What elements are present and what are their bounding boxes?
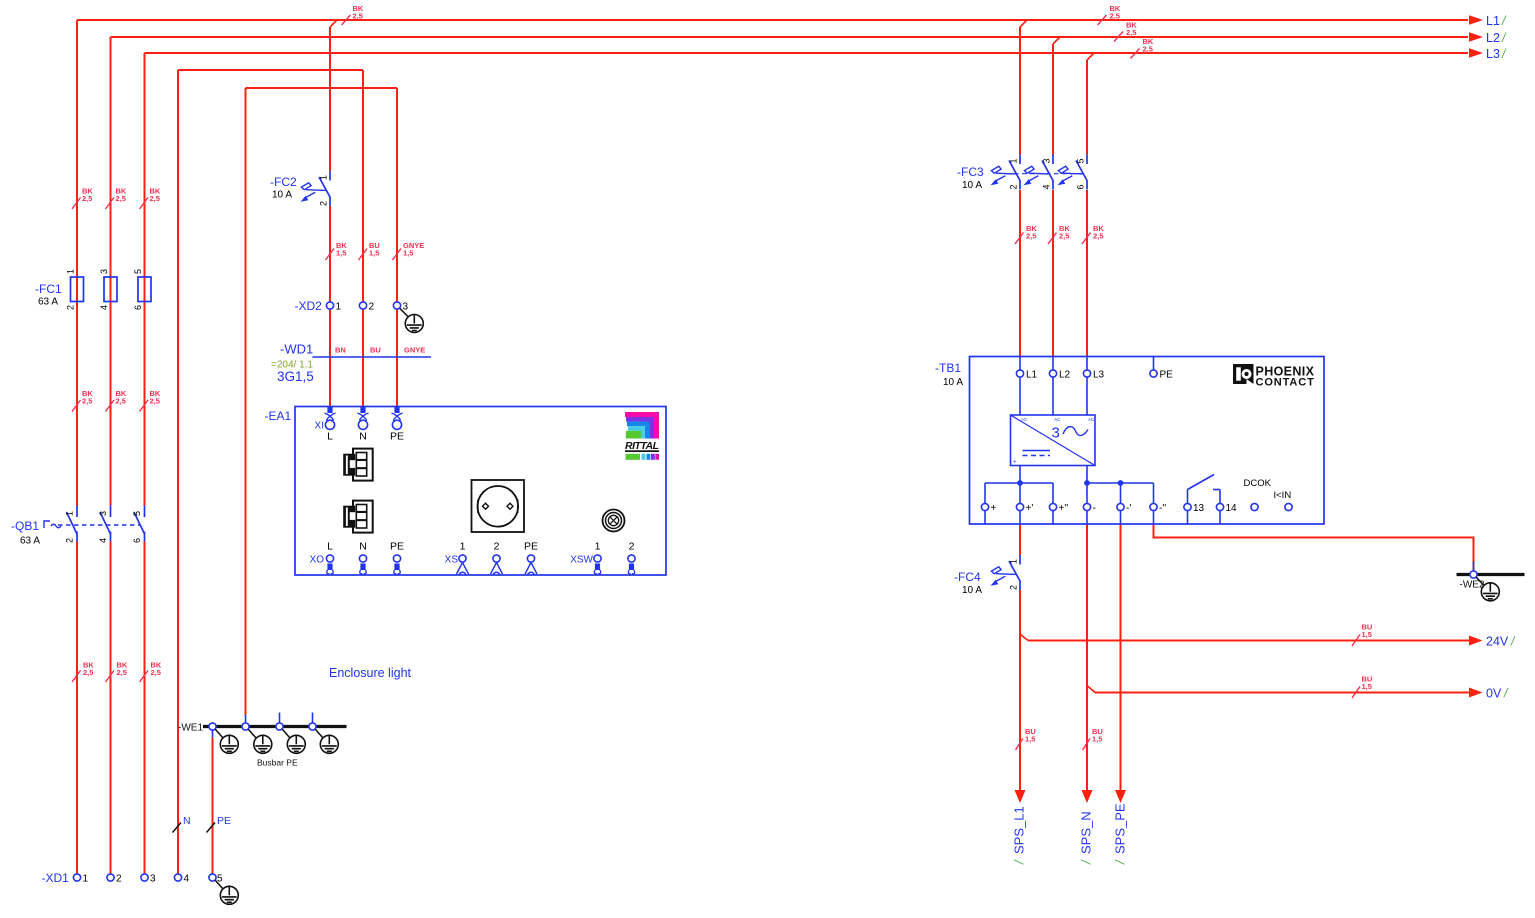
svg-text:6: 6 bbox=[132, 538, 142, 543]
svg-text:1,5: 1,5 bbox=[1092, 735, 1102, 744]
svg-text:RITTAL: RITTAL bbox=[625, 440, 659, 452]
svg-text:PE: PE bbox=[524, 541, 538, 553]
svg-text:2,5: 2,5 bbox=[117, 668, 127, 677]
svg-text:AC: AC bbox=[1088, 417, 1095, 422]
svg-text:-XD1: -XD1 bbox=[42, 871, 70, 885]
svg-text:-QB1: -QB1 bbox=[11, 519, 39, 533]
svg-text:1: 1 bbox=[336, 302, 342, 313]
svg-text:2,5: 2,5 bbox=[1026, 232, 1036, 241]
svg-text:5: 5 bbox=[133, 269, 143, 274]
svg-text:5: 5 bbox=[132, 511, 142, 516]
svg-text:+: + bbox=[991, 503, 997, 514]
svg-text:3G1,5: 3G1,5 bbox=[277, 369, 314, 384]
svg-text:-FC1: -FC1 bbox=[35, 282, 62, 296]
svg-text:1,5: 1,5 bbox=[1362, 630, 1372, 639]
svg-text:2,5: 2,5 bbox=[116, 397, 126, 406]
svg-text:2,5: 2,5 bbox=[82, 397, 92, 406]
svg-text:1: 1 bbox=[460, 541, 466, 553]
svg-text:2,5: 2,5 bbox=[1110, 12, 1120, 21]
svg-text:-: - bbox=[1093, 503, 1096, 514]
svg-text:2: 2 bbox=[66, 305, 76, 310]
svg-text:2,5: 2,5 bbox=[1143, 45, 1153, 54]
svg-text:-FC4: -FC4 bbox=[954, 570, 981, 584]
svg-text:Enclosure light: Enclosure light bbox=[329, 666, 412, 680]
svg-text:4: 4 bbox=[99, 305, 109, 310]
svg-text:1,5: 1,5 bbox=[1025, 735, 1035, 744]
svg-text:1,5: 1,5 bbox=[336, 249, 346, 258]
svg-text:63 A: 63 A bbox=[20, 536, 40, 547]
svg-text:10 A: 10 A bbox=[962, 180, 982, 191]
svg-text:6: 6 bbox=[133, 305, 143, 310]
svg-text:L1: L1 bbox=[1026, 370, 1038, 381]
svg-text:3: 3 bbox=[403, 302, 409, 313]
svg-text:-: - bbox=[1089, 460, 1091, 466]
svg-text:XS: XS bbox=[445, 555, 459, 566]
svg-text:1: 1 bbox=[66, 269, 76, 274]
svg-text:L2: L2 bbox=[1059, 370, 1071, 381]
svg-text:10 A: 10 A bbox=[272, 190, 292, 201]
svg-text:CONTACT: CONTACT bbox=[1256, 377, 1315, 389]
svg-text:L3: L3 bbox=[1093, 370, 1105, 381]
svg-text:+'': +'' bbox=[1059, 503, 1069, 514]
svg-text:Busbar PE: Busbar PE bbox=[257, 758, 298, 768]
svg-text:DCOK: DCOK bbox=[1244, 478, 1272, 489]
svg-text:L: L bbox=[327, 541, 333, 553]
svg-text:SPS_L1: SPS_L1 bbox=[1012, 806, 1027, 854]
svg-text:4: 4 bbox=[98, 538, 108, 543]
svg-text:PE: PE bbox=[390, 431, 404, 443]
svg-text:2,5: 2,5 bbox=[151, 668, 161, 677]
svg-text:4: 4 bbox=[184, 874, 190, 885]
svg-text:2,5: 2,5 bbox=[1093, 232, 1103, 241]
svg-text:14: 14 bbox=[1226, 503, 1238, 514]
svg-text:2: 2 bbox=[1009, 184, 1019, 189]
svg-text:L: L bbox=[327, 431, 333, 443]
svg-text:13: 13 bbox=[1193, 503, 1205, 514]
svg-text:-': -' bbox=[1126, 503, 1131, 514]
svg-text:-WD1: -WD1 bbox=[280, 342, 313, 357]
svg-text:PE: PE bbox=[1160, 370, 1174, 381]
svg-text:XSW: XSW bbox=[570, 555, 593, 566]
svg-text:AC: AC bbox=[1054, 417, 1061, 422]
svg-text:2,5: 2,5 bbox=[82, 194, 92, 203]
svg-text:SPS_PE: SPS_PE bbox=[1113, 803, 1128, 854]
svg-text:3: 3 bbox=[99, 269, 109, 274]
svg-text:1,5: 1,5 bbox=[369, 249, 379, 258]
svg-text:-'': -'' bbox=[1159, 503, 1166, 514]
svg-text:L2: L2 bbox=[1486, 31, 1500, 45]
svg-text:2,5: 2,5 bbox=[116, 194, 126, 203]
svg-text:1,5: 1,5 bbox=[1362, 682, 1372, 691]
svg-text:XI: XI bbox=[315, 421, 324, 432]
svg-text:L3: L3 bbox=[1486, 47, 1500, 61]
svg-text:2: 2 bbox=[116, 874, 122, 885]
svg-text:2: 2 bbox=[1009, 585, 1019, 590]
svg-text:SPS_N: SPS_N bbox=[1079, 811, 1094, 854]
svg-text:L1: L1 bbox=[1486, 14, 1500, 28]
svg-text:-WE1: -WE1 bbox=[178, 723, 203, 734]
svg-text:-TB1: -TB1 bbox=[935, 361, 961, 375]
svg-text:2,5: 2,5 bbox=[1059, 232, 1069, 241]
svg-text:-FC3: -FC3 bbox=[957, 165, 984, 179]
svg-text:I<IN: I<IN bbox=[1274, 490, 1292, 501]
svg-text:2: 2 bbox=[65, 538, 75, 543]
svg-text:3: 3 bbox=[98, 511, 108, 516]
svg-text:0V: 0V bbox=[1486, 687, 1502, 701]
svg-text:1: 1 bbox=[1009, 559, 1019, 564]
svg-text:2,5: 2,5 bbox=[353, 12, 363, 21]
svg-text:4: 4 bbox=[1042, 184, 1052, 189]
svg-text:2: 2 bbox=[629, 541, 635, 553]
svg-text:3: 3 bbox=[1042, 158, 1052, 163]
svg-text:2: 2 bbox=[369, 302, 375, 313]
svg-text:AC: AC bbox=[1021, 417, 1028, 422]
svg-text:1: 1 bbox=[595, 541, 601, 553]
svg-text:1: 1 bbox=[1009, 158, 1019, 163]
svg-text:63 A: 63 A bbox=[38, 297, 58, 308]
svg-text:N: N bbox=[359, 541, 367, 553]
svg-text:3: 3 bbox=[150, 874, 156, 885]
svg-text:6: 6 bbox=[1076, 184, 1086, 189]
svg-text:5: 5 bbox=[1076, 158, 1086, 163]
svg-text:-EA1: -EA1 bbox=[265, 409, 292, 423]
svg-text:2: 2 bbox=[319, 201, 329, 206]
svg-text:XO: XO bbox=[310, 555, 325, 566]
svg-text:PE: PE bbox=[390, 541, 404, 553]
svg-text:N: N bbox=[359, 431, 367, 443]
svg-text:PE: PE bbox=[217, 815, 231, 827]
svg-text:+': +' bbox=[1026, 503, 1034, 514]
svg-text:1,5: 1,5 bbox=[403, 249, 413, 258]
svg-text:2,5: 2,5 bbox=[83, 668, 93, 677]
svg-text:+: + bbox=[1013, 460, 1017, 466]
svg-text:GNYE: GNYE bbox=[404, 346, 425, 355]
svg-text:10 A: 10 A bbox=[943, 377, 963, 388]
svg-text:-FC2: -FC2 bbox=[270, 175, 297, 189]
svg-text:1: 1 bbox=[83, 874, 89, 885]
svg-text:1: 1 bbox=[65, 511, 75, 516]
svg-text:24V: 24V bbox=[1486, 635, 1509, 649]
svg-text:10 A: 10 A bbox=[962, 585, 982, 596]
svg-text:3: 3 bbox=[1052, 425, 1060, 442]
svg-text:-XD2: -XD2 bbox=[295, 299, 323, 313]
svg-text:N: N bbox=[183, 815, 191, 827]
svg-text:2,5: 2,5 bbox=[150, 194, 160, 203]
svg-text:2,5: 2,5 bbox=[1126, 28, 1136, 37]
svg-text:2: 2 bbox=[494, 541, 500, 553]
svg-text:BN: BN bbox=[335, 346, 346, 355]
svg-text:1: 1 bbox=[319, 175, 329, 180]
svg-text:BU: BU bbox=[370, 346, 381, 355]
svg-text:2,5: 2,5 bbox=[150, 397, 160, 406]
